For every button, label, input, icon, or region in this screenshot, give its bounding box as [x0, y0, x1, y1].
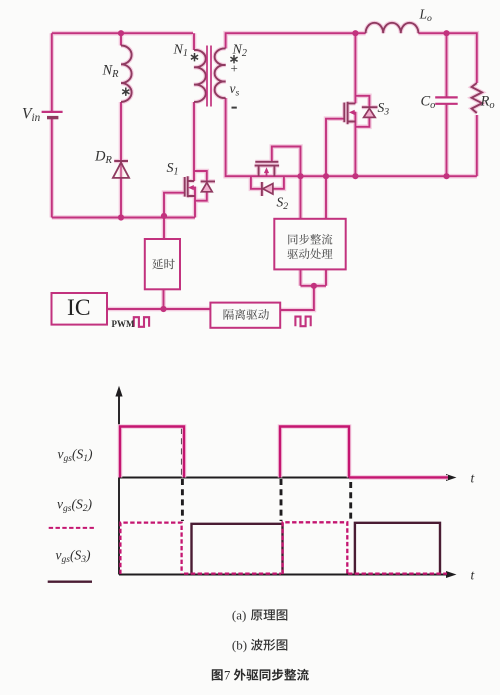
svg-text:vgs(S2): vgs(S2): [57, 497, 92, 515]
svg-text:+: +: [231, 61, 238, 76]
svg-text:7: 7: [224, 669, 230, 683]
svg-text:vgs(S3): vgs(S3): [56, 548, 91, 566]
svg-text:(b): (b): [232, 638, 247, 653]
svg-text:IC: IC: [67, 295, 91, 321]
svg-text:(a): (a): [232, 608, 246, 623]
svg-text:vgs(S1): vgs(S1): [58, 447, 93, 465]
svg-text:PWM: PWM: [112, 319, 135, 329]
